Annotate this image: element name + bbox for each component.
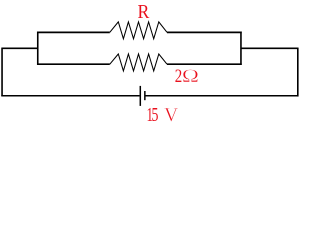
value label "2Ω" for resistor R2 — [175, 65, 199, 87]
resistor R2 (2Ω, bottom zigzag) — [110, 54, 167, 71]
wire: inner top left lead — [37, 31, 110, 33]
wire: inner bottom left lead — [37, 63, 110, 65]
wire: outer right horizontal — [241, 47, 298, 49]
wire: outer left horizontal — [2, 47, 38, 49]
value label "15 V" for battery B1 — [147, 104, 179, 127]
wire: outer right vertical — [297, 48, 299, 97]
wire: inner rectangle left side — [37, 32, 39, 66]
svg-text:Ω: Ω — [182, 65, 199, 87]
svg-text:R: R — [137, 1, 149, 23]
wire: bottom right segment — [145, 95, 298, 97]
wire: inner top right lead — [167, 31, 242, 33]
resistor R1 (R, top zigzag) — [110, 22, 167, 39]
wire: inner rectangle right side — [240, 32, 242, 66]
svg-text:V: V — [164, 105, 178, 126]
svg-text:5: 5 — [152, 104, 159, 126]
battery B1 (15 V) — [140, 86, 145, 106]
wire: bottom left segment — [1, 95, 139, 97]
wire: inner bottom right lead — [167, 63, 242, 65]
wire: outer left vertical — [1, 48, 3, 96]
